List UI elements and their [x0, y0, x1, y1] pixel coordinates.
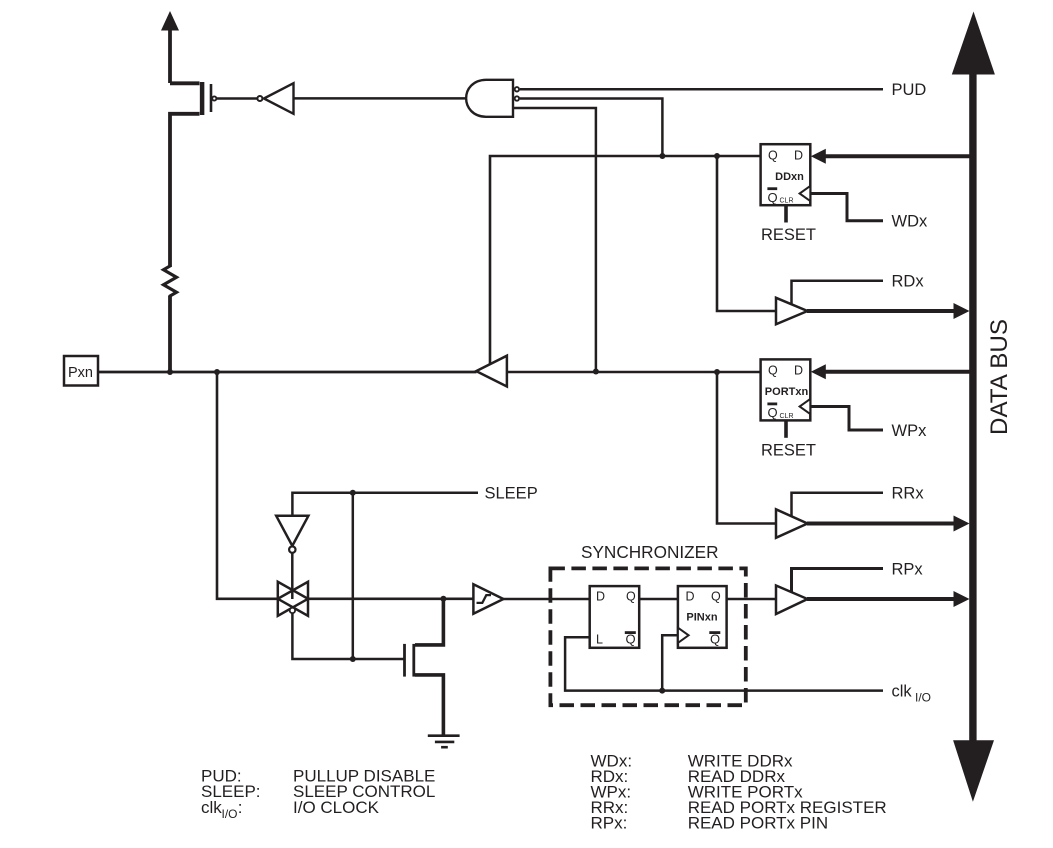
tri-state buffer U6 (output driver)	[476, 356, 507, 387]
ground	[428, 736, 460, 748]
wire SLEEP vertical branch	[352, 493, 355, 659]
svg-text:I/O CLOCK: I/O CLOCK	[293, 798, 380, 817]
wire latch1 Q to PINxn D	[639, 598, 678, 601]
svg-text:RRx: RRx	[892, 485, 925, 503]
VCC supply arrow	[161, 11, 179, 83]
svg-text:PORTxn: PORTxn	[765, 386, 809, 398]
svg-text:D: D	[794, 148, 803, 162]
svg-text:PUD: PUD	[892, 81, 927, 99]
node junction DDxn-Q / AND	[659, 153, 665, 159]
node junction SLEEP branch	[350, 490, 356, 496]
node junction PORTxn-Q / AND	[593, 369, 599, 375]
transmission gate U10	[278, 582, 404, 659]
svg-text:RESET: RESET	[761, 441, 816, 459]
wire WPx clock	[810, 407, 883, 431]
pad Pxn	[64, 356, 98, 386]
svg-text:WDx: WDx	[892, 213, 928, 231]
wire RRx enable	[792, 493, 884, 517]
wire inverter input to AND output	[294, 97, 469, 100]
inverter U2 (pull-up gate driver)	[257, 83, 293, 114]
legend right column	[591, 751, 887, 832]
svg-text:D: D	[686, 590, 695, 604]
wire Pxn pin net	[98, 371, 477, 374]
resistor R1 (pull-up)	[164, 265, 177, 372]
svg-text:RPx: RPx	[892, 560, 924, 578]
wire RRx output to DATA BUS (with arrowhead)	[807, 516, 970, 532]
wire pin branch down to input path	[217, 372, 278, 599]
wire DATA BUS to DDxn D (with arrowhead)	[811, 149, 972, 164]
svg-text:RESET: RESET	[761, 226, 816, 244]
svg-text:Q: Q	[711, 590, 721, 604]
flip-flop U7 PORTxn	[761, 359, 811, 420]
wire PORTxn Q net	[507, 371, 761, 374]
node junction clamp transistor drain	[440, 596, 446, 602]
AND input bubble (DDxn)	[515, 96, 519, 100]
svg-text:READ PORTx PIN: READ PORTx PIN	[688, 814, 828, 833]
flip-flop U13 PINxn	[678, 586, 727, 648]
svg-text:Pxn: Pxn	[68, 365, 93, 381]
svg-text:D: D	[794, 364, 803, 378]
node junction clk	[659, 688, 665, 694]
svg-text:L: L	[596, 633, 603, 647]
transistor Q2 (NMOS sleep clamp)	[405, 599, 444, 735]
svg-text:DDxn: DDxn	[775, 171, 804, 183]
svg-text:Q: Q	[768, 364, 778, 378]
wire RDx enable	[792, 281, 884, 305]
svg-text:Q: Q	[768, 148, 778, 162]
svg-text:clk: clk	[892, 683, 913, 701]
svg-text:WPx: WPx	[892, 422, 928, 440]
wire RESET stub (DDxn)	[784, 205, 788, 222]
wire PINxn Q to RPx buffer	[727, 598, 777, 601]
wire PORTxn Q down to RRx buffer	[717, 372, 777, 524]
wire PINxn clock to clk	[662, 635, 678, 690]
wire RPx enable	[792, 569, 884, 593]
svg-text:RPx:: RPx:	[591, 814, 628, 833]
svg-text:RDx: RDx	[892, 273, 925, 291]
node junction sleep gate	[350, 656, 356, 662]
AND gate U3 (pull-up enable, mirrored)	[466, 80, 513, 117]
wire SLEEP net	[292, 493, 478, 516]
svg-text:Q: Q	[768, 190, 778, 205]
svg-text:CLR: CLR	[780, 198, 794, 205]
wire RESET stub (PORTxn)	[784, 421, 788, 438]
synchronizer dashed box	[550, 568, 745, 705]
transistor Q1 (PMOS pull-up)	[170, 82, 257, 267]
wire schmitt output to synchronizer	[503, 598, 590, 601]
wire RDx output to DATA BUS (with arrowhead)	[807, 303, 970, 319]
inverter U9 (sleep inverter)	[276, 516, 308, 599]
svg-text:Q: Q	[768, 405, 778, 420]
AND input bubble (PUD)	[515, 87, 519, 91]
svg-text:SYNCHRONIZER: SYNCHRONIZER	[581, 542, 719, 562]
wire DDxn Q net (horizontal)	[490, 156, 761, 364]
node junction DDxn-Q / RDx branch	[714, 153, 720, 159]
legend left column	[201, 767, 435, 821]
buffer U5 (RDx read driver)	[776, 298, 808, 325]
svg-text:PINxn: PINxn	[686, 612, 717, 624]
wire transmission gate to schmitt input	[308, 597, 474, 600]
wire AND bottom input to PORTxn Q node	[513, 108, 596, 372]
wire DATA BUS to PORTxn D (with arrowhead)	[811, 364, 972, 379]
svg-text:clk: clk	[201, 798, 222, 817]
svg-text:D: D	[596, 590, 605, 604]
buffer U14 (RPx read driver)	[776, 586, 808, 615]
flip-flop U4 DDxn	[761, 144, 811, 205]
svg-text:SLEEP: SLEEP	[485, 485, 538, 503]
node junction pull-up / pin	[167, 369, 173, 375]
buffer U8 (RRx read driver)	[776, 509, 808, 538]
node junction pin / input branch	[214, 369, 220, 375]
label clk I/O	[892, 683, 932, 705]
svg-text:DATA BUS: DATA BUS	[986, 319, 1013, 435]
wire RPx output to DATA BUS (with arrowhead)	[807, 591, 970, 607]
wire clk I/O	[660, 689, 883, 692]
DATA BUS (vertical bus with arrowheads)	[952, 12, 995, 802]
svg-text:CLR: CLR	[780, 413, 794, 420]
svg-text:I/O: I/O	[222, 807, 238, 821]
wire DDxn Q down to RDx buffer	[717, 156, 777, 311]
wire AND middle input to DDxn Q node	[520, 99, 663, 157]
wire latch L enable to clk	[565, 637, 660, 690]
wire WDx clock	[810, 194, 883, 221]
buffer U11 (schmitt trigger)	[473, 584, 503, 614]
latch U12 (first sync latch)	[590, 586, 640, 648]
wire PUD	[520, 88, 883, 91]
node junction PORTxn-Q / RRx branch	[714, 369, 720, 375]
svg-text:Q: Q	[626, 590, 636, 604]
svg-text::: :	[238, 798, 243, 817]
svg-text:I/O: I/O	[915, 691, 931, 705]
